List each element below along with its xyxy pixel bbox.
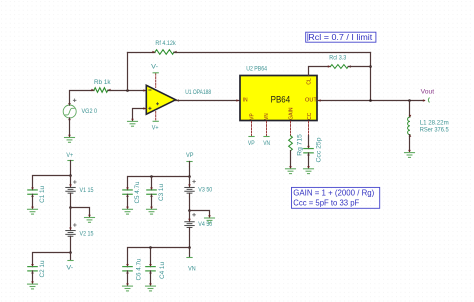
tap VN [187,257,192,259]
svg-text:VN: VN [264,113,270,119]
pin arrow op-amp noninverting input [143,107,146,110]
wire C4 branch [150,248,152,267]
power amp U2 PB64 block [240,76,317,121]
svg-text:Rb 1k: Rb 1k [94,79,111,86]
CC pin stub [308,121,310,135]
wire V4 to bottom rail [189,228,191,248]
svg-text:RSer 376.5: RSer 376.5 [420,127,449,134]
svg-text:L1 28.22m: L1 28.22m [420,119,449,126]
wire C1 to ground [32,194,34,208]
junction L1 branch [408,99,411,102]
wire V1 to mid junction [70,193,72,207]
capacitor C3 [147,187,156,197]
svg-text:V3 50: V3 50 [198,187,212,194]
CL pin wire [309,67,331,76]
svg-text:CL: CL [307,78,313,84]
svg-text:V+: V+ [152,124,159,131]
voltage source VG2 [63,99,76,118]
junction C4 tap [149,246,152,249]
svg-text:V2 15: V2 15 [80,230,94,237]
note box Rcl formula [306,32,376,42]
svg-text:Ccc = 5pF to 33 pF: Ccc = 5pF to 33 pF [293,198,359,207]
svg-text:V-: V- [66,265,73,272]
capacitor Ccc [304,146,313,156]
ground under Ccc [307,166,310,169]
junction V3-V4 [188,209,191,212]
wire V2 to bottom rail [70,236,72,252]
wire Rg to ground [290,151,292,168]
wire C5 to ground [127,194,129,208]
junction Rcl joins feedback [369,65,372,68]
wire rail to C1 [33,176,71,191]
svg-text:Rcl = 0.7 / I limit: Rcl = 0.7 / I limit [308,33,373,42]
wire Rb to op-amp inverting input [108,90,146,92]
GAIN pin stub [290,121,292,135]
wire C6 to ground [127,271,129,285]
wire rail to C6 [128,248,190,267]
wire op-amp output to U2 IN [176,100,240,102]
svg-text:VP: VP [250,113,256,120]
tap V+ [68,160,73,162]
tap VP [187,161,192,163]
wire VP tap down to rail [189,162,191,177]
wire C3 to ground [151,194,153,208]
ground under Rg [289,166,292,169]
wire rail to C5 [128,177,190,191]
ground under C6 [126,283,129,286]
junction C3 tap [150,175,153,178]
svg-text:VN: VN [263,140,270,147]
wire mid junction to ground [190,211,210,218]
ground at op-amp input [131,119,134,122]
wire Ccc to ground [308,153,310,168]
ground under VG2 [68,135,71,138]
wire to V2 [70,208,72,231]
wire rail to C2 [33,253,71,267]
wire CC to cap [308,136,310,149]
battery V3 [185,180,196,193]
junction feedback at OUT line [369,99,372,102]
wire to inductor [409,101,411,118]
junction VN rail [188,246,191,249]
wire VG2 to Rb [70,91,95,106]
svg-text:C2 1u: C2 1u [39,260,46,277]
wire mid junction to ground [71,208,90,217]
svg-text:VP: VP [248,140,255,147]
junction feedback tap [126,89,129,92]
wire C4 to ground [150,271,152,285]
pin arrow at U2 OUT [318,99,321,102]
pin arrow op-amp inverting input [143,89,146,92]
wire feedback down to OUT line [370,53,372,101]
ground under C5 [126,207,129,210]
svg-text:V-: V- [151,63,158,70]
svg-text:C4 1u: C4 1u [159,262,166,279]
svg-text:Rg 715: Rg 715 [296,134,303,156]
battery V4 [185,213,196,227]
svg-text:V4 50: V4 50 [198,221,212,228]
pin arrow into U2 IN [236,99,239,102]
ground under L1 [408,150,411,153]
wire rail to V3 [189,177,191,188]
svg-text:GAIN: GAIN [288,107,294,119]
svg-text:Ccc 25p: Ccc 25p [316,137,323,162]
VN pin stub [264,121,269,136]
wire VG2 to ground [69,118,71,137]
resistor Rf [152,50,176,55]
capacitor C2 [28,264,37,274]
inductor L1 [408,115,412,137]
wire V3 to mid junction [189,193,191,210]
wire C2 to ground [32,271,34,284]
pin arrow op-amp output [176,99,179,102]
svg-text:Vout: Vout [421,89,435,96]
wire top rail left of Rf [128,52,156,54]
capacitor C4 [146,264,155,274]
capacitor C1 [28,187,37,197]
wire to V4 [189,211,191,222]
junction V- rail [69,251,72,254]
ground under C2 [31,281,34,284]
svg-text:U1 OPA188: U1 OPA188 [185,89,211,96]
op-amp U1 [146,85,175,114]
battery V1 [66,181,76,194]
junction VP rail [188,175,191,178]
ground under C3 [150,207,153,210]
resistor Rg [289,136,293,151]
pin arrow VG2 top [68,103,71,106]
tap V- [68,260,73,262]
svg-text:C6 4.7u: C6 4.7u [136,258,143,280]
svg-text:V+: V+ [66,152,73,159]
svg-text:C1 1u: C1 1u [39,186,46,203]
op-amp V- power stub [153,73,158,88]
resistor Rb [91,88,110,93]
capacitor C5 [123,187,132,197]
svg-text:Rcl 3.3: Rcl 3.3 [329,55,346,62]
wire V+ tap down to rail [70,161,72,176]
VN stub [189,248,191,258]
capacitor C6 [123,264,132,274]
svg-text:CC: CC [307,113,313,120]
wire C3 branch [151,177,153,191]
op-amp V+ power stub [153,112,158,122]
ground under C1 [31,207,34,210]
svg-text:C3 1u: C3 1u [158,184,165,201]
V- stub [70,253,72,261]
ground between V1 V2 [88,215,91,218]
port Vout [423,98,429,102]
battery V2 [66,224,76,237]
svg-text:Rf 4.12k: Rf 4.12k [155,40,176,47]
svg-text:PB64: PB64 [271,95,291,105]
junction V+ rail [69,174,72,177]
wire U2 OUT to Vout [317,100,425,102]
svg-text:OUT: OUT [305,98,317,104]
svg-text:V1 15: V1 15 [80,187,94,194]
pin arrow VG2 bottom [68,118,71,121]
junction V1-V2 [69,206,72,209]
svg-text:IN: IN [243,98,248,104]
wire op-amp noninverting input to ground [133,109,147,121]
wire L1 to ground [409,135,411,152]
svg-text:C5 4.7u: C5 4.7u [134,181,141,203]
wire rail to V1 [70,176,72,188]
note box GAIN formula [292,187,380,208]
ground under C4 [149,283,152,286]
wire feedback vertical [127,53,129,91]
VP pin stub [249,121,254,136]
wire Rcl to feedback vertical [348,66,370,68]
svg-text:U2 PB64: U2 PB64 [246,65,267,72]
wire top rail Rf to corner [174,52,371,54]
svg-text:VG2 0: VG2 0 [82,108,98,115]
svg-text:VP: VP [186,152,194,159]
resistor Rcl [328,65,351,69]
ground between V3 V4 [208,215,211,218]
svg-text:GAIN = 1 + (2000 / Rg): GAIN = 1 + (2000 / Rg) [293,189,374,198]
svg-text:VN: VN [188,266,196,273]
